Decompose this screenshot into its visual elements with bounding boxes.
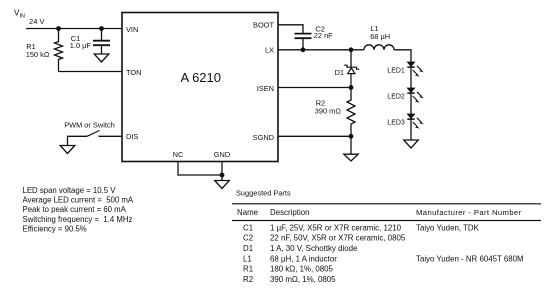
wire R1 to TON	[59, 71, 123, 73]
ground IC GND	[215, 181, 230, 189]
svg-text:Suggested Parts: Suggested Parts	[236, 189, 291, 198]
svg-text:390 mΩ: 390 mΩ	[315, 107, 342, 116]
svg-text:Efficiency = 90.5%: Efficiency = 90.5%	[23, 225, 87, 234]
svg-text:Manufacturer - Part Number: Manufacturer - Part Number	[416, 208, 522, 217]
wire NC to GND	[178, 162, 222, 176]
svg-text:R1: R1	[243, 265, 253, 274]
capacitor C2	[295, 34, 312, 50]
inductor L1	[364, 45, 394, 50]
svg-text:NC: NC	[173, 150, 184, 159]
ground switch	[60, 146, 75, 154]
svg-text:LED1: LED1	[387, 67, 405, 74]
svg-text:Description: Description	[270, 208, 309, 217]
junction ISEN/D1/R2	[349, 85, 354, 90]
LED3	[407, 114, 424, 129]
svg-text:Taiyo Yuden, TDK: Taiyo Yuden, TDK	[416, 223, 480, 232]
switch S1 arm	[87, 131, 100, 137]
wire VIN input to IC	[26, 28, 122, 30]
svg-text:68 µH, 1 A inductor: 68 µH, 1 A inductor	[270, 254, 337, 263]
svg-text:GND: GND	[214, 150, 230, 159]
svg-text:Peak to peak current = 60 mA: Peak to peak current = 60 mA	[23, 205, 127, 214]
junction C2/LX	[301, 47, 306, 52]
resistor R1	[55, 29, 63, 72]
diode D1 schottky	[344, 65, 359, 87]
wire LED string	[410, 62, 412, 140]
wire LX to L1	[278, 49, 364, 51]
junction VIN/C1	[99, 26, 104, 31]
svg-text:Name: Name	[237, 208, 259, 217]
label circuit parameters	[23, 186, 134, 234]
svg-text:180 kΩ, 1%, 0805: 180 kΩ, 1%, 0805	[270, 265, 334, 274]
svg-text:24 V: 24 V	[29, 17, 46, 26]
wire switch to DIS	[99, 135, 123, 137]
svg-text:ISEN: ISEN	[257, 84, 274, 93]
svg-text:VIN: VIN	[126, 25, 138, 34]
svg-text:D1: D1	[243, 244, 253, 253]
svg-text:390 mΩ, 1%, 0805: 390 mΩ, 1%, 0805	[270, 275, 336, 284]
svg-text:SGND: SGND	[253, 133, 274, 142]
svg-text:D1: D1	[335, 68, 344, 77]
junction D1/LX	[349, 47, 354, 52]
svg-text:68 µH: 68 µH	[370, 32, 390, 41]
wire L1 to LED string	[394, 50, 411, 62]
svg-text:22 nF: 22 nF	[314, 31, 333, 40]
svg-text:PWM or Switch: PWM or Switch	[64, 121, 115, 130]
ground SGND	[344, 154, 358, 161]
capacitor C1	[93, 29, 110, 55]
junction GND	[220, 173, 225, 178]
wire GND pin down	[221, 162, 223, 181]
svg-text:LED span voltage = 10.5 V: LED span voltage = 10.5 V	[23, 186, 117, 195]
wire LX junction to D1	[350, 50, 352, 67]
LED2	[407, 88, 424, 103]
svg-text:1.0 µF: 1.0 µF	[70, 41, 92, 50]
wire ISEN to R2	[278, 87, 351, 89]
LED1	[407, 62, 424, 77]
svg-text:Taiyo Yuden - NR 6045T 680M: Taiyo Yuden - NR 6045T 680M	[416, 254, 524, 263]
table rule top	[232, 203, 541, 205]
svg-text:22 nF, 50V, X5R or X7R ceramic: 22 nF, 50V, X5R or X7R ceramic, 0805	[270, 234, 406, 243]
svg-text:LED2: LED2	[387, 93, 405, 100]
table rule below header	[232, 220, 541, 222]
svg-text:1 A, 30 V, Schottky diode: 1 A, 30 V, Schottky diode	[270, 244, 358, 253]
svg-text:L1: L1	[243, 254, 252, 263]
resistor R2	[347, 88, 355, 137]
ground LED string	[404, 140, 419, 148]
svg-text:Switching frequency = 1.4 MHz: Switching frequency = 1.4 MHz	[23, 215, 133, 224]
svg-text:C2: C2	[243, 234, 253, 243]
ground C1	[94, 54, 109, 62]
svg-text:BOOT: BOOT	[253, 21, 274, 30]
IC U1 A6210 body	[122, 13, 278, 162]
svg-text:LX: LX	[265, 46, 274, 55]
svg-text:Average LED current = 500 mA: Average LED current = 500 mA	[23, 196, 134, 205]
junction SGND/R2	[349, 134, 354, 139]
junction VIN/R1	[56, 26, 61, 31]
svg-text:TON: TON	[126, 68, 141, 77]
svg-text:1 µF, 25V, X5R or X7R ceramic,: 1 µF, 25V, X5R or X7R ceramic, 1210	[270, 223, 402, 232]
svg-text:150 kΩ: 150 kΩ	[26, 50, 50, 59]
wire SGND to R2	[278, 135, 351, 137]
wire SGND junction to ground	[350, 136, 352, 154]
svg-text:C1: C1	[243, 223, 253, 232]
svg-text:R2: R2	[243, 275, 253, 284]
wire switch left to ground	[68, 136, 88, 145]
table rows	[243, 223, 524, 284]
wire BOOT to C2	[278, 25, 303, 33]
svg-text:LED3: LED3	[387, 119, 405, 126]
svg-text:DIS: DIS	[126, 132, 138, 141]
svg-text:A 6210: A 6210	[181, 70, 222, 85]
